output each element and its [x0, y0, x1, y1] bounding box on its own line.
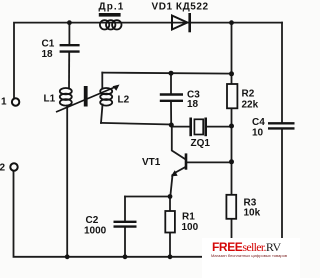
- node tank top / C3: [169, 71, 174, 76]
- wire base: [187, 161, 232, 163]
- wire C3 bottom lead: [170, 103, 172, 125]
- svg-text:100: 100: [182, 222, 199, 233]
- terminal 1: [12, 98, 19, 105]
- svg-text:22k: 22k: [242, 100, 259, 111]
- inductor L2: [100, 88, 112, 106]
- wire L2 loop bottom: [101, 123, 171, 125]
- node R2 top: [229, 71, 234, 76]
- node C1 top rail junction: [67, 20, 72, 25]
- capacitor C2: [114, 222, 137, 227]
- svg-text:10: 10: [252, 128, 264, 139]
- node R1 bottom rail: [168, 254, 173, 259]
- capacitor C3: [160, 95, 183, 101]
- inductor L1: [60, 88, 72, 106]
- wire C3 top lead: [170, 73, 172, 93]
- wire bottom rail: [14, 171, 283, 257]
- wire ZQ1 left: [171, 126, 189, 127]
- wire emitter to R1: [169, 197, 171, 212]
- wire C2 top: [125, 196, 170, 198]
- svg-text:10k: 10k: [244, 208, 261, 219]
- svg-text:VT1: VT1: [142, 157, 161, 168]
- wire emitter: [174, 167, 185, 173]
- wire C1-L1 branch: [68, 23, 70, 44]
- wire tank top: [102, 73, 231, 74]
- capacitor C4: [268, 123, 295, 128]
- svg-text:R1: R1: [182, 212, 195, 223]
- variable tuning arrow: [56, 85, 120, 113]
- node L1 bottom rail: [65, 254, 70, 259]
- node ZQ1 right / R2 bottom: [229, 124, 234, 129]
- svg-text:L2: L2: [118, 95, 130, 106]
- svg-text:C4: C4: [252, 117, 265, 128]
- wire collector: [172, 126, 185, 159]
- node C2 bottom rail: [123, 254, 128, 259]
- resistor R3: [226, 195, 236, 219]
- svg-text:Др.1: Др.1: [99, 1, 125, 12]
- node supply rail right junction: [229, 20, 234, 25]
- svg-text:R2: R2: [242, 89, 255, 100]
- node emitter / C2 top: [168, 194, 173, 199]
- svg-text:1000: 1000: [84, 226, 107, 237]
- resistor R1: [165, 211, 175, 233]
- svg-text:18: 18: [42, 49, 54, 60]
- resistor R2: [227, 84, 237, 108]
- wire R2-R3 rail: [231, 108, 233, 195]
- svg-text:1: 1: [1, 97, 7, 108]
- wire ZQ1 right: [207, 126, 232, 128]
- node base / R3 top: [229, 159, 234, 164]
- capacitor C1: [60, 45, 80, 51]
- svg-text:ZQ1: ZQ1: [191, 138, 211, 149]
- transistor VT1: [185, 153, 188, 169]
- watermark logo FREEseller.RV: [202, 238, 300, 278]
- svg-text:18: 18: [187, 99, 199, 110]
- wire right rail upper: [281, 23, 283, 122]
- svg-text:C2: C2: [86, 215, 99, 226]
- wire L2 loop left: [101, 73, 103, 89]
- wire R2 branch upper: [231, 23, 233, 84]
- svg-text:L1: L1: [44, 94, 56, 105]
- svg-text:VD1 КД522: VD1 КД522: [152, 1, 209, 12]
- wire right rail lower: [281, 130, 283, 257]
- svg-text:C1: C1: [42, 39, 55, 50]
- diode VD1: [172, 13, 190, 32]
- wire C2 bottom lead: [124, 228, 126, 257]
- choke Dr.1: [99, 13, 121, 17]
- wire R3 bottom lead: [231, 219, 233, 257]
- wire R1 bottom lead: [169, 233, 171, 257]
- terminal 2: [10, 163, 17, 170]
- wire top rail: [14, 23, 282, 98]
- ferrite core bar: [84, 86, 88, 107]
- svg-text:2: 2: [0, 163, 6, 174]
- crystal ZQ1: [189, 118, 207, 137]
- node collector / ZQ1 left: [169, 123, 174, 128]
